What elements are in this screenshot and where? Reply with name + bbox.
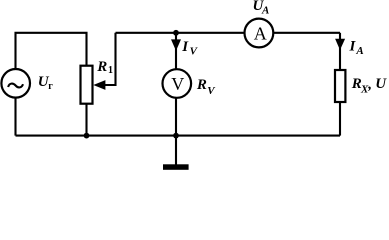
- wire: RX bottom to bottom rail: [339, 102, 341, 136]
- svg-text:A: A: [261, 5, 269, 17]
- label R_X, U: [351, 76, 388, 95]
- wire: R1 bottom to bottom rail: [85, 104, 87, 136]
- wire: bottom rail: [16, 135, 341, 137]
- svg-text:I: I: [349, 38, 357, 54]
- svg-text:1: 1: [108, 65, 113, 76]
- node: junction dot at voltmeter bottom: [173, 133, 179, 139]
- wire: voltmeter bottom to bottom rail: [175, 98, 177, 136]
- wire: right drop with current arrow I_A: [335, 33, 345, 70]
- label R1: [96, 59, 113, 76]
- svg-text:R: R: [196, 77, 207, 93]
- node: junction dot on top rail above voltmeter: [173, 30, 179, 36]
- svg-text:V: V: [190, 45, 199, 57]
- ammeter U2 (circle A): [245, 19, 274, 48]
- svg-text:I: I: [181, 39, 189, 55]
- voltmeter U1 (circle V): [163, 69, 192, 98]
- label I_V: [181, 39, 198, 57]
- wiper arrow of R1 (wire up to top rail): [93, 33, 115, 90]
- ground: [163, 136, 189, 170]
- AC source G1 (generator circle with sine): [1, 69, 30, 98]
- svg-text:V: V: [207, 85, 216, 97]
- svg-text:V: V: [171, 74, 184, 94]
- wire: source bottom to bottom rail: [14, 98, 16, 136]
- resistor R1 (rheostat body): [81, 66, 93, 104]
- label R_V: [196, 77, 216, 97]
- wire: top rail from ammeter to right corner: [274, 32, 341, 34]
- label I_A: [349, 38, 364, 57]
- svg-text:A: A: [355, 45, 363, 57]
- svg-text:U: U: [375, 76, 387, 92]
- svg-text:A: A: [254, 23, 267, 43]
- wire: top rail from wiper to ammeter: [116, 32, 245, 34]
- wire: left loop top (source top, top-left rail, down to R1 top): [16, 33, 87, 69]
- label U_г: [38, 74, 54, 92]
- svg-text:,: ,: [367, 76, 372, 92]
- wire: current arrow I_V down to voltmeter: [171, 33, 181, 69]
- svg-text:R: R: [96, 59, 107, 75]
- label U_A: [253, 0, 270, 17]
- svg-text:г: г: [48, 81, 53, 92]
- node: junction dot at R1 bottom: [84, 133, 90, 139]
- resistor RX body: [335, 70, 345, 102]
